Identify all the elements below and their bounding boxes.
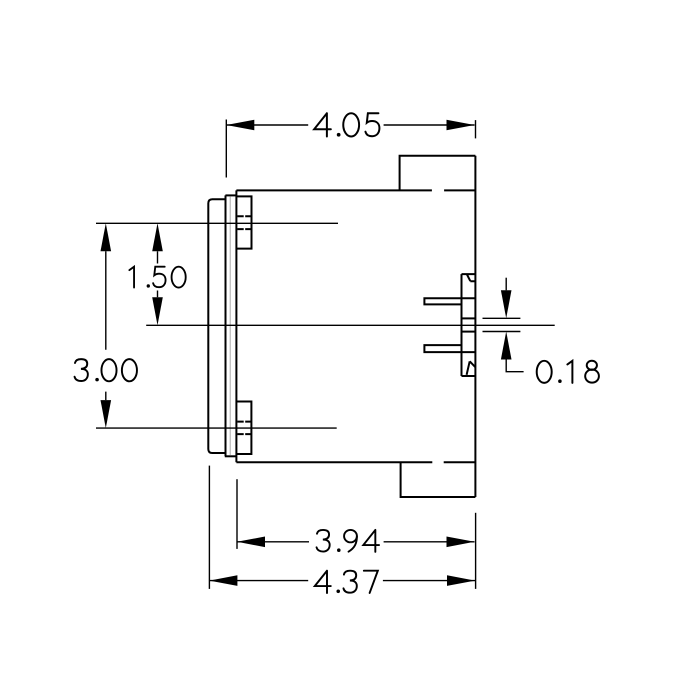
flange plate bottom edge (225, 455, 237, 457)
dim text 1.50 (129, 267, 185, 288)
dim 0.18 tick upper (483, 317, 521, 319)
arrow 3.94 right (447, 537, 475, 548)
dim 4.05 extension left (225, 120, 227, 178)
flange plate top edge (225, 194, 236, 196)
arrow 3.00 top (101, 223, 112, 251)
dim 3.94 extension left (236, 479, 238, 549)
dim text 0.18 (537, 361, 599, 383)
dim 4.37 extension left (208, 466, 210, 589)
center reference line (146, 324, 555, 326)
top mounting tab (237, 196, 252, 248)
dim 0.18 leader upper (505, 278, 507, 291)
lower terminal pin (424, 345, 475, 352)
top right tab (400, 156, 476, 191)
lower hole reference line (96, 427, 337, 429)
dim 3.00 line (105, 251, 107, 400)
arrow 0.18 bottom (501, 332, 512, 360)
arrow 1.50 top (152, 223, 163, 251)
bottom tab hidden hole line upper (237, 421, 251, 423)
dim 3.94+4.37 extension right (475, 513, 477, 589)
body top edge (236, 189, 474, 191)
top latch hook (462, 274, 476, 281)
arrow 4.05 right (447, 120, 475, 131)
arrow 4.37 right (447, 575, 475, 586)
dim 4.05 line (226, 124, 474, 126)
dim text 3.94 (317, 530, 380, 552)
insert block left edge (461, 274, 463, 376)
body bottom edge (236, 461, 475, 463)
upper hole reference line (96, 222, 338, 224)
dim text 4.37 (315, 571, 378, 593)
upper terminal pin (424, 298, 475, 304)
bottom latch hook (462, 361, 476, 376)
arrow 4.05 left (226, 120, 254, 131)
bottom right tab (401, 462, 476, 497)
middle pin lower line (462, 331, 476, 333)
dim 4.05 extension right (475, 120, 477, 138)
bottom tab hidden hole line lower (237, 433, 251, 435)
flange plate mid seam (229, 196, 231, 455)
dim 0.18 leader lower (506, 360, 523, 372)
dim 0.18 tick lower (483, 331, 521, 333)
arrow 3.94 left (237, 537, 265, 548)
dim 3.94 line (237, 541, 475, 543)
flange plate left edge (225, 195, 227, 456)
dim 4.37 line (209, 580, 475, 582)
gasket plate left outline (208, 199, 225, 453)
arrow 0.18 top (501, 290, 512, 318)
dim text 3.00 (75, 359, 137, 381)
middle pin upper line (462, 317, 476, 319)
bottom mounting tab (237, 402, 252, 455)
dim 1.50 line (157, 251, 159, 297)
top tab hidden hole line lower (237, 228, 251, 230)
arrow 1.50 bottom (152, 297, 163, 325)
arrow 3.00 bottom (101, 400, 112, 428)
arrow 4.37 left (209, 575, 237, 586)
dim text 4.05 (314, 113, 379, 136)
top tab hidden hole line upper (237, 215, 251, 217)
body left edge (235, 190, 237, 462)
body right edge (474, 156, 476, 497)
